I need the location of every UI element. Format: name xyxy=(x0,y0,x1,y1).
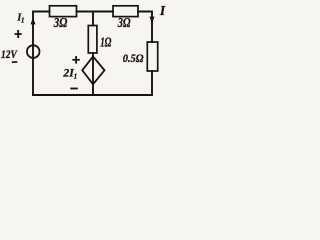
wire right-bottom segment xyxy=(151,71,153,95)
resistor R4 0.5ohm right box xyxy=(147,42,157,71)
wire top-middle segment xyxy=(77,11,114,13)
svg-text:3Ω: 3Ω xyxy=(53,15,67,30)
wire bottom segment xyxy=(33,94,152,96)
svg-text:1: 1 xyxy=(21,18,24,25)
dependent source D1 diamond xyxy=(82,56,104,84)
svg-text:3Ω: 3Ω xyxy=(117,15,131,30)
plus sign of source V1 horizontal bar xyxy=(15,33,22,35)
svg-text:1: 1 xyxy=(74,74,77,81)
minus sign of dependent source xyxy=(70,88,78,90)
wire top-right segment xyxy=(138,12,152,43)
wire middle branch through dependent source xyxy=(92,53,94,95)
resistor R2 3ohm top-right box xyxy=(113,6,138,17)
resistor R1 3ohm top-left box xyxy=(50,6,77,17)
svg-text:1Ω: 1Ω xyxy=(100,34,111,49)
minus sign of source V1 xyxy=(12,61,17,63)
wire middle branch upper xyxy=(92,12,94,26)
resistor R3 1ohm middle box xyxy=(88,26,97,54)
current arrow I on right wire pointing down xyxy=(150,17,155,24)
plus sign of dependent source vertical bar xyxy=(75,56,77,64)
voltage source V1 12V circle xyxy=(27,45,40,58)
svg-text:2I: 2I xyxy=(62,67,74,79)
svg-text:0.5Ω: 0.5Ω xyxy=(123,51,144,65)
svg-text:12V: 12V xyxy=(1,49,18,61)
plus sign of dependent source horizontal bar xyxy=(72,59,79,61)
svg-text:I: I xyxy=(159,3,166,18)
plus sign of source V1 vertical bar xyxy=(17,30,19,38)
current arrow I1 on left wire pointing up xyxy=(31,18,36,25)
wire top-left segment xyxy=(33,12,50,96)
